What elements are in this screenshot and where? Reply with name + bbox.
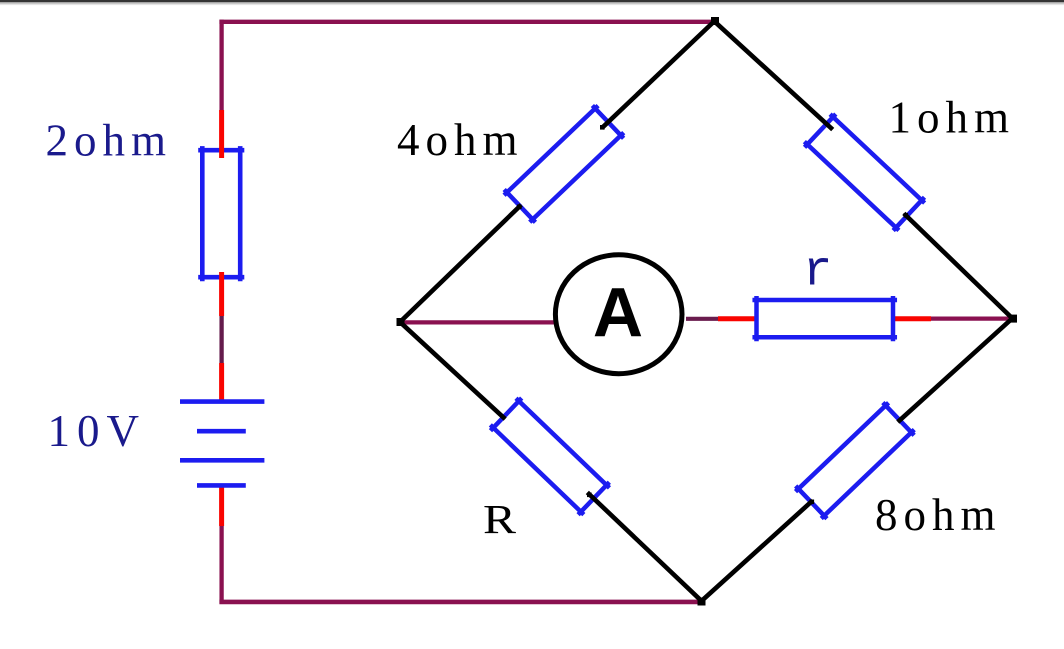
wire ammeter to r: [686, 317, 720, 321]
svg-text:4ohm: 4ohm: [397, 115, 524, 165]
svg-text:r: r: [803, 244, 832, 300]
wire red below battery: [219, 486, 224, 526]
wire black top node to 4ohm: [604, 22, 714, 127]
wire red right of r: [889, 316, 931, 321]
node left: [397, 318, 405, 326]
wire end dot R bottom: [587, 493, 592, 498]
node top: [711, 17, 719, 25]
wire top-left vertical: [219, 20, 223, 112]
wire end dot 4ohm bottom: [517, 205, 522, 210]
ammeter A1 circle: [555, 255, 682, 374]
wire red left of r: [718, 316, 761, 321]
svg-text:1ohm: 1ohm: [889, 93, 1016, 143]
wire bottom-left vertical: [219, 524, 223, 604]
node right: [1009, 315, 1017, 323]
wire end dot 1ohm bottom: [904, 213, 909, 218]
wire black top node to 1ohm: [715, 22, 832, 129]
wire black 8ohm to right node: [900, 319, 1013, 421]
svg-text:A: A: [593, 274, 643, 352]
svg-text:2ohm: 2ohm: [46, 116, 173, 166]
wire black 1ohm to right node: [906, 215, 1013, 318]
resistor 2ohm body: [201, 148, 243, 279]
wire r to right node: [930, 317, 1015, 321]
resistor 4ohm body: [504, 106, 623, 222]
battery 10V plates: [180, 402, 264, 486]
wire end dot 4ohm top: [600, 125, 605, 130]
node bottom: [698, 598, 706, 606]
resistor R body: [491, 398, 609, 514]
resistor r body: [755, 298, 895, 339]
wire black 4ohm to left node: [401, 207, 520, 322]
wire end dot 8ohm bottom: [810, 500, 815, 505]
wire bottom horizontal: [219, 600, 703, 605]
top page border: [0, 0, 1064, 2]
resistor 1ohm body: [805, 114, 924, 230]
wire black left node to R: [401, 323, 504, 418]
wire mid-left: [219, 314, 223, 366]
resistor 8ohm body: [796, 403, 914, 518]
svg-text:10V: 10V: [48, 406, 147, 456]
wire red above battery: [219, 363, 224, 401]
wire black bottom node to 8ohm: [702, 502, 812, 601]
wire black R to bottom node: [589, 494, 702, 601]
wire center-left: [400, 320, 561, 324]
svg-text:8ohm: 8ohm: [875, 490, 1002, 540]
wire top horizontal: [219, 20, 716, 24]
wire red above 2ohm: [219, 110, 224, 158]
svg-text:R: R: [483, 496, 517, 542]
wire red below 2ohm: [219, 272, 224, 316]
